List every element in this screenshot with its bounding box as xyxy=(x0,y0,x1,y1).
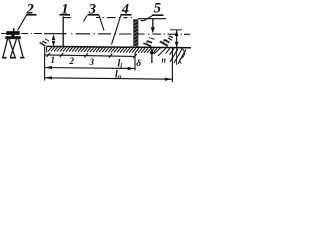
tripod head xyxy=(6,36,21,39)
upstream water level line (dash-dot) xyxy=(96,17,132,19)
crest level line right of plate xyxy=(138,18,166,20)
svg-text:5: 5 xyxy=(154,1,161,17)
left extension line of dimension rows xyxy=(44,47,46,81)
svg-text:n: n xyxy=(162,56,167,65)
chain oblique ticks xyxy=(47,53,137,58)
bed hatching xyxy=(48,47,157,53)
dimension hn vertical with arrows xyxy=(175,30,179,48)
li arrowheads xyxy=(45,66,135,70)
tripod legs xyxy=(3,39,8,57)
dimension hi lower outside arrow (pointing up to bed) xyxy=(150,48,154,63)
label 5 xyxy=(141,1,164,21)
channel bed top line xyxy=(47,46,191,47)
bed left face xyxy=(46,46,48,52)
svg-text:1: 1 xyxy=(51,55,56,65)
support xyxy=(12,35,15,37)
dimension hi upper outside arrow (pointing down to sight line) xyxy=(151,19,155,34)
sight line stub left of telescope xyxy=(1,33,7,35)
telescope body xyxy=(7,31,20,34)
staff top tick xyxy=(63,17,71,19)
weir plate (hatched) xyxy=(134,20,138,48)
label 1 xyxy=(60,1,71,17)
label 2 xyxy=(18,1,37,30)
background xyxy=(0,0,192,94)
sight line (dash-dot) of level xyxy=(22,33,191,36)
label 3 xyxy=(84,1,105,30)
svg-text:2: 2 xyxy=(69,56,75,66)
dimension h1 double arrow xyxy=(52,34,55,46)
knob xyxy=(13,28,15,31)
svg-text:3: 3 xyxy=(89,57,95,67)
level instrument U (telescope on tripod) xyxy=(1,28,25,58)
bed hatching right wedge (longer strokes) xyxy=(154,47,186,64)
dimension li line xyxy=(45,68,135,69)
hn top reference tick xyxy=(170,29,182,31)
ln arrowheads xyxy=(45,76,172,81)
bed break line (freehand curl) xyxy=(180,48,185,64)
extension line below weir plate xyxy=(134,53,136,71)
svg-text:δ: δ xyxy=(136,59,141,69)
feet xyxy=(2,57,25,59)
staff (rod) xyxy=(62,16,64,47)
right extension line (ln) xyxy=(171,48,173,82)
chain dimension row (row 1) xyxy=(45,55,135,57)
hn line extension below bed xyxy=(176,48,178,65)
label 4 xyxy=(112,1,132,44)
dimension ln line xyxy=(45,78,173,79)
white pocket for letter n xyxy=(162,54,170,63)
